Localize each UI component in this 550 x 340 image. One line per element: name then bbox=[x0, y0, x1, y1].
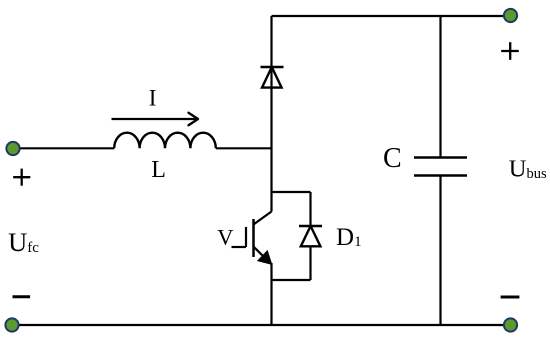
wire: emitter to bottom rail bbox=[270, 263, 272, 325]
plus sign (output) bbox=[501, 42, 519, 60]
minus sign (input) bbox=[13, 295, 31, 298]
wire: inductor to switching node bbox=[216, 147, 272, 149]
wire: bottom rail bbox=[12, 324, 511, 326]
wire: main vertical branch (switch node up to top rail and down to collector) bbox=[270, 16, 272, 212]
terminal: input negative (bottom left) bbox=[5, 318, 18, 331]
wire: D1 branch top horizontal bbox=[272, 191, 311, 193]
svg-text:C: C bbox=[383, 143, 402, 174]
terminal: output negative (bottom right) bbox=[504, 318, 517, 331]
terminal: output positive (top right) bbox=[504, 9, 517, 22]
wire: capacitor branch lower bbox=[439, 176, 441, 326]
diode (boost diode, on vertical branch) bbox=[261, 67, 284, 88]
transistor V (IGBT) bbox=[232, 212, 272, 264]
svg-text:V: V bbox=[217, 224, 233, 249]
plus sign (input) bbox=[13, 169, 30, 186]
capacitor C bbox=[414, 158, 467, 176]
svg-text:L: L bbox=[151, 157, 166, 183]
wire: D1 branch vertical upper bbox=[309, 192, 311, 226]
wire: D1 branch bottom horizontal bbox=[272, 279, 311, 281]
wire: D1 branch vertical lower bbox=[309, 246, 311, 280]
wire: capacitor branch upper bbox=[439, 16, 441, 158]
current arrow I bbox=[112, 113, 199, 125]
svg-text:I: I bbox=[149, 86, 157, 111]
diode D1 (anti-parallel) bbox=[299, 226, 322, 246]
terminal: input positive (left) bbox=[6, 142, 19, 155]
minus sign (output) bbox=[501, 296, 520, 299]
inductor L bbox=[114, 133, 216, 149]
wire: input from left terminal to inductor bbox=[13, 147, 114, 149]
wire: top rail bbox=[272, 15, 511, 17]
